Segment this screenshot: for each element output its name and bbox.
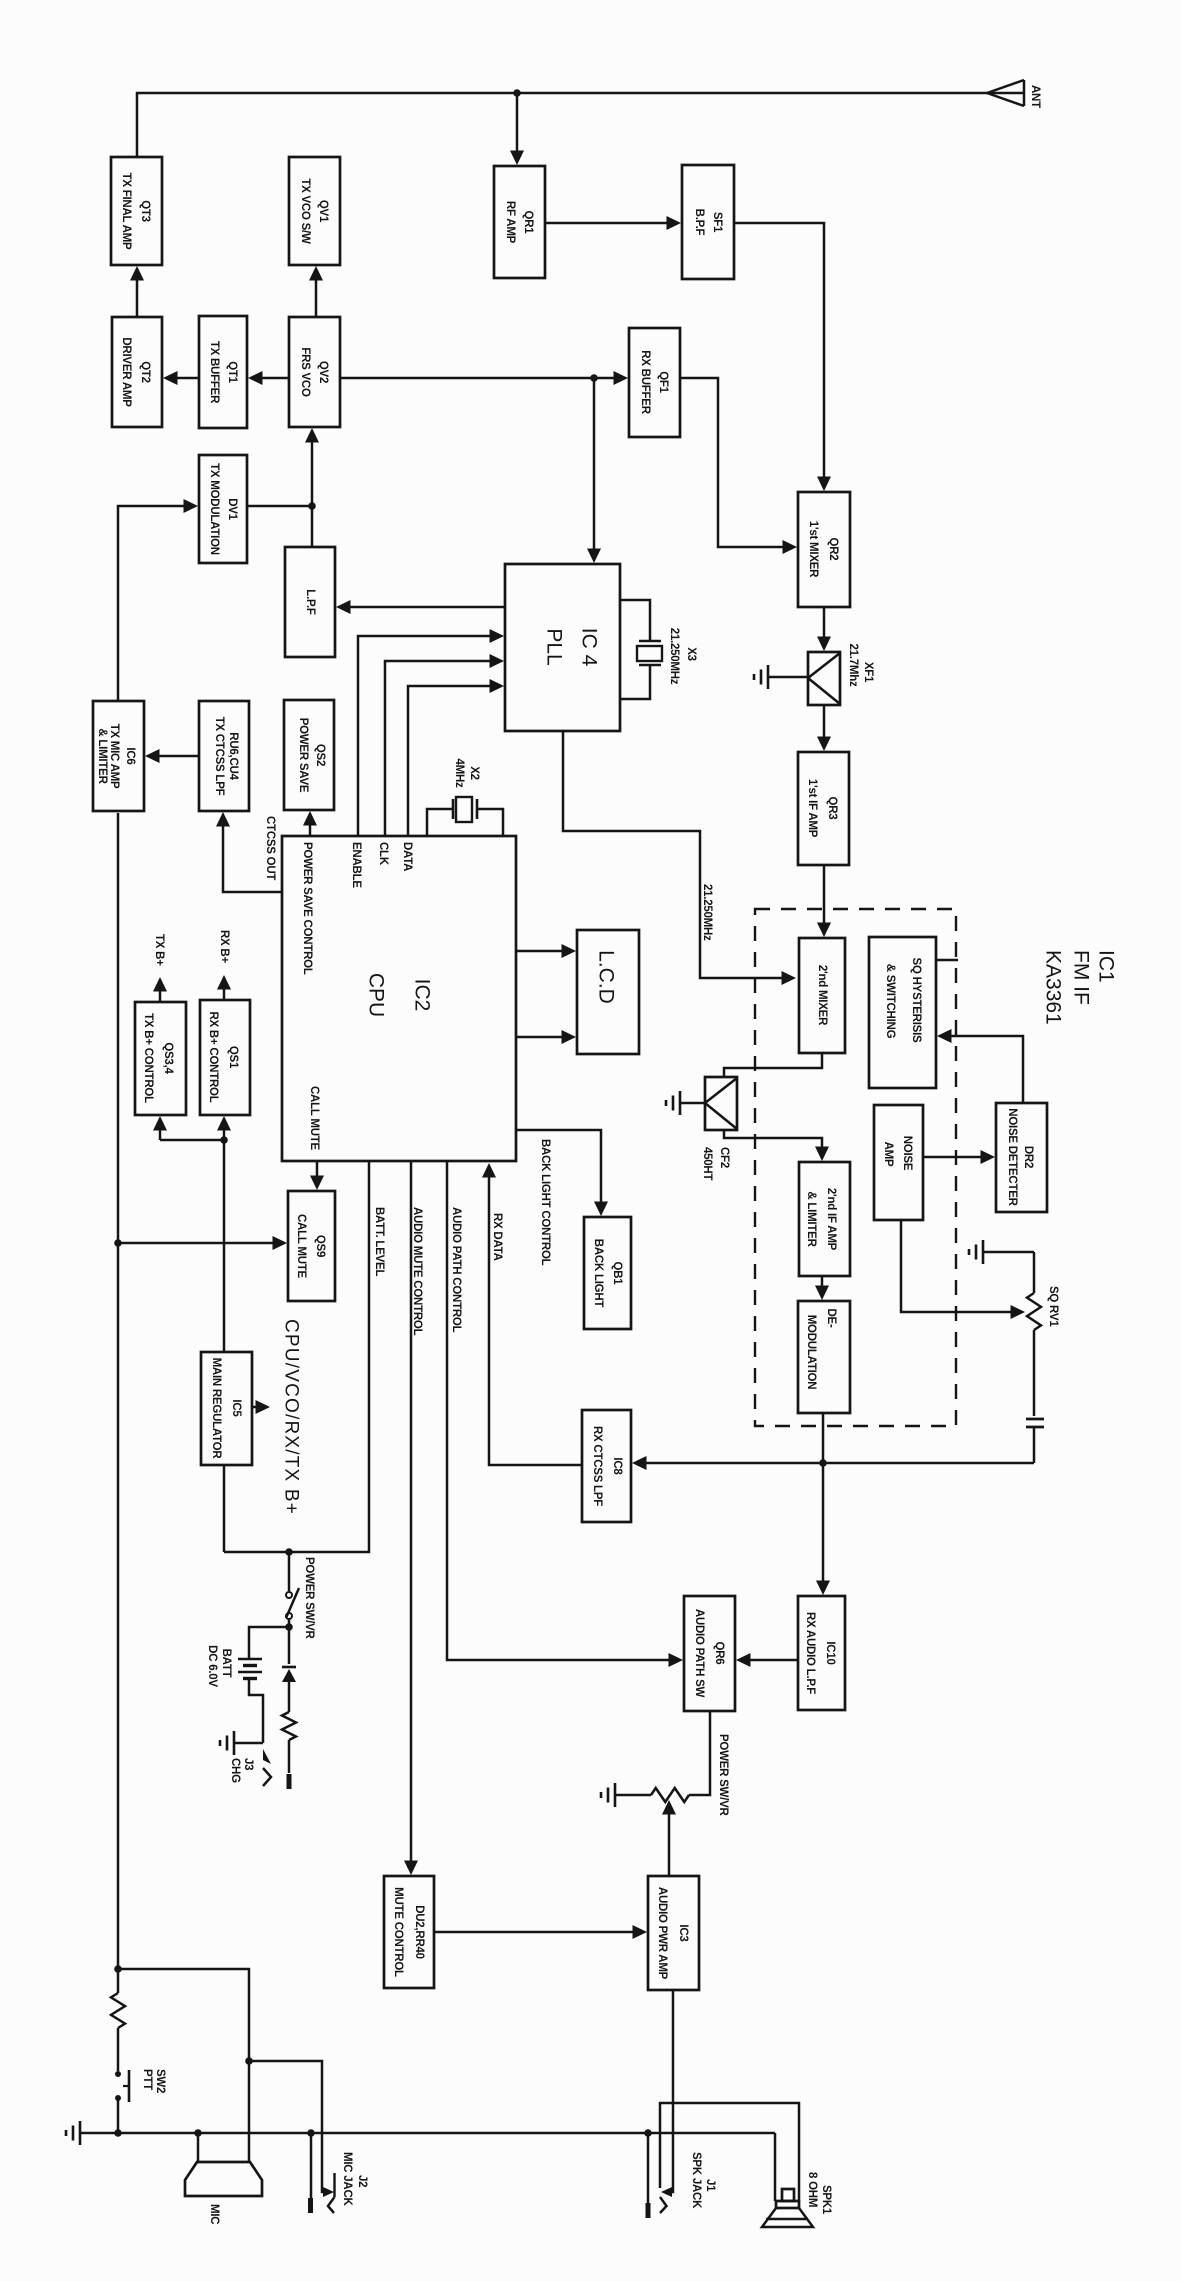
wire NOISE AMP to SQ RV1 wiper: [901, 1220, 1025, 1319]
potentiometer SQ RV1: [1027, 1252, 1041, 1416]
wire QR2 to XF1: [817, 607, 831, 651]
svg-text:IC 4: IC 4: [578, 628, 601, 667]
block SF1 B.P.F: [682, 165, 734, 279]
wire J1 tip lead: [647, 2133, 650, 2203]
junction demodulation output node: [819, 1459, 827, 1467]
wire PTT to ground rail: [117, 2098, 120, 2133]
svg-text:RX B+: RX B+: [218, 930, 230, 963]
switch POWER SW/VR: [286, 1588, 299, 1619]
wire NOISE AMP to DR2: [923, 1150, 995, 1164]
block QB1 BACK LIGHT: [584, 1217, 631, 1329]
svg-text:ANT: ANT: [1029, 85, 1041, 108]
svg-text:QS3,4: QS3,4: [162, 1042, 174, 1074]
svg-text:SF1: SF1: [711, 212, 723, 233]
svg-text:QT1: QT1: [226, 361, 238, 383]
label X2 4MHz: [453, 758, 480, 788]
svg-text:QV2: QV2: [317, 361, 329, 383]
svg-text:RX B+ CONTROL: RX B+ CONTROL: [207, 1012, 219, 1103]
svg-text:DU2,RR40: DU2,RR40: [413, 1905, 425, 1959]
junction PTT on rail: [114, 2129, 122, 2137]
pin label DATA: [401, 842, 413, 871]
junction DV1 node: [308, 502, 316, 510]
block IC2 CPU: [282, 836, 516, 1161]
svg-text:IC5: IC5: [230, 1399, 242, 1417]
wire DU2 to IC3: [434, 1925, 647, 1939]
wire AUDIO MUTE CONTROL: [404, 1161, 418, 1875]
svg-text:TX B+ CONTROL: TX B+ CONTROL: [142, 1013, 154, 1103]
wire IC5 bottom: [223, 1465, 226, 1552]
svg-text:NOISE: NOISE: [901, 1136, 913, 1171]
junction mic/jack node: [245, 2057, 253, 2065]
svg-text:MIC: MIC: [208, 2204, 220, 2224]
arrow TX B+: [153, 977, 167, 1002]
antenna ANT: [987, 80, 1024, 106]
wire volume wiper to IC3: [662, 1800, 676, 1876]
junction J1 tip: [644, 2129, 652, 2137]
wire IC3 output: [672, 1990, 673, 2192]
pin label CLK: [377, 842, 389, 866]
svg-text:CTCSS OUT: CTCSS OUT: [264, 816, 276, 880]
svg-text:PTT: PTT: [141, 2069, 153, 2090]
svg-text:1'st MIXER: 1'st MIXER: [807, 521, 819, 578]
label BATT. LEVEL: [373, 1207, 385, 1276]
dashed boundary IC1 KA3361: [755, 909, 956, 1426]
label J1 SPK JACK: [690, 2152, 716, 2209]
svg-text:POWER SW/VR: POWER SW/VR: [717, 1734, 729, 1817]
svg-text:BACK LIGHT: BACK LIGHT: [592, 1239, 604, 1308]
svg-text:IC6: IC6: [124, 747, 136, 764]
block DR2 NOISE DETECTER: [996, 1103, 1047, 1212]
svg-text:IC10: IC10: [824, 1641, 836, 1664]
label CF2 450HT: [701, 1147, 730, 1180]
block L.P.F: [285, 547, 335, 657]
svg-text:450HT: 450HT: [701, 1147, 713, 1180]
svg-text:AUDIO PATH SW: AUDIO PATH SW: [693, 1609, 705, 1698]
wire resistor to PTT: [117, 2028, 120, 2071]
wire CPU CALL MUTE to QS9: [310, 1161, 324, 1190]
label 21.250MHz: [701, 884, 713, 941]
svg-text:TX BUFFER: TX BUFFER: [208, 341, 220, 404]
wire DATA to PLL: [408, 679, 504, 836]
block QR3 1'st IF AMP: [798, 752, 849, 865]
svg-text:MUTE CONTROL: MUTE CONTROL: [392, 1887, 404, 1977]
svg-text:L.P.F: L.P.F: [304, 589, 316, 615]
label IC1 FM IF KA3361: [1042, 950, 1118, 1025]
svg-text:SPK1: SPK1: [820, 2185, 832, 2215]
crystal X3 21.250MHz: [620, 600, 662, 699]
svg-text:NOISE DETECTER: NOISE DETECTER: [1006, 1108, 1018, 1206]
svg-text:TX FINAL AMP: TX FINAL AMP: [120, 173, 132, 250]
wire PLL to 2'nd MIXER 21.250MHz: [563, 731, 796, 985]
filter XF1 21.7Mhz: [808, 652, 840, 705]
wire DV1 to QV2/LPF: [247, 428, 319, 547]
jack J1 SPK JACK tip: [646, 2203, 651, 2218]
svg-text:DE-: DE-: [825, 1308, 837, 1327]
label XF1 21.7Mhz: [847, 644, 874, 687]
svg-text:POWER SW/VR: POWER SW/VR: [303, 1557, 315, 1640]
block NOISE AMP: [874, 1105, 923, 1220]
label J2 MIC JACK: [341, 2152, 368, 2207]
wire ENABLE to PLL: [358, 629, 504, 836]
svg-text:POWER SAVE: POWER SAVE: [297, 718, 309, 793]
wire squelch to IC8: [632, 1456, 1034, 1470]
resistor PTT rail: [111, 1993, 125, 2028]
pin label CALL MUTE: [308, 1086, 320, 1151]
wire left rail upper: [117, 813, 120, 1993]
wire speaker ground lead: [774, 2133, 777, 2201]
svg-text:J1: J1: [704, 2179, 716, 2192]
wire PLL to LPF: [336, 600, 505, 614]
svg-text:QB1: QB1: [611, 1262, 623, 1286]
svg-text:MIC JACK: MIC JACK: [341, 2152, 353, 2207]
wire RU6 to IC6: [145, 749, 199, 763]
block QT3 TX FINAL AMP: [111, 157, 162, 265]
svg-text:RU6,CU4: RU6,CU4: [227, 732, 239, 780]
svg-text:XF1: XF1: [862, 662, 874, 683]
wire resistor to J3 tip: [288, 1740, 291, 1773]
wire switch to diode: [288, 1619, 291, 1664]
svg-text:FM IF: FM IF: [1070, 950, 1093, 1005]
label ANT: [1029, 85, 1041, 108]
block IC4 PLL: [505, 564, 620, 731]
jack J2 MIC JACK tip: [308, 2198, 313, 2213]
wire IC8 to CPU RX DATA: [482, 1163, 582, 1465]
wire to power switch: [288, 1552, 291, 1591]
svg-text:SQ HYSTERISIS: SQ HYSTERISIS: [910, 958, 922, 1044]
wire QV2 to QV1: [309, 266, 323, 317]
svg-text:BATT. LEVEL: BATT. LEVEL: [373, 1207, 385, 1276]
wire SF1 to QR2: [734, 223, 831, 491]
pin label CTCSS OUT: [264, 816, 276, 880]
svg-text:QR1: QR1: [522, 211, 534, 235]
block QS2 POWER SAVE: [284, 700, 334, 810]
potentiometer volume POWER SW/VR: [651, 1788, 689, 1802]
wire ground rail: [80, 2132, 775, 2135]
wire IC10 to QR6: [736, 1653, 798, 1667]
wire mic right lead: [248, 2061, 251, 2162]
block QT2 DRIVER AMP: [112, 317, 162, 427]
wire CPU to LCD upper: [516, 944, 576, 958]
filter CF2 450HT: [705, 1077, 737, 1130]
svg-text:FRS VCO: FRS VCO: [299, 347, 311, 397]
wire CF2 to 2'nd IF AMP: [724, 1130, 829, 1161]
svg-text:QF1: QF1: [657, 371, 669, 393]
jack J1 SPK JACK contact: [660, 2187, 672, 2213]
svg-text:IC2: IC2: [411, 979, 434, 1012]
block IC8 RX CTCSS LPF: [582, 1410, 631, 1522]
svg-text:4MHz: 4MHz: [453, 758, 465, 788]
ground at XF1: [754, 665, 808, 689]
svg-text:CALL MUTE: CALL MUTE: [295, 1214, 307, 1279]
pushbutton SW2 PTT: [115, 2070, 129, 2102]
svg-text:RX DATA: RX DATA: [491, 1213, 503, 1261]
svg-text:CHG: CHG: [229, 1758, 241, 1783]
wire to IC5 top: [223, 1140, 226, 1352]
wire SQ HYSTERISIS stub: [936, 959, 958, 962]
wire J2 branch: [249, 2061, 327, 2192]
wire DE-MODULATION to IC10: [816, 1413, 830, 1595]
svg-text:TX VCO S/W: TX VCO S/W: [299, 178, 311, 244]
speaker SPK1 8 OHM: [762, 2189, 813, 2227]
label POWER SW/VR upper: [303, 1557, 315, 1640]
block QF1 RX BUFFER: [629, 328, 680, 437]
svg-text:QS2: QS2: [314, 744, 326, 766]
junction mic line at QS9: [114, 1239, 122, 1247]
block QR1 RF AMP: [494, 166, 545, 278]
label BACK LIGHT CONTROL: [539, 1139, 551, 1266]
svg-text:BATT: BATT: [220, 1649, 232, 1678]
svg-text:& LIMITER: & LIMITER: [96, 728, 108, 784]
svg-text:DC 6.0V: DC 6.0V: [206, 1645, 218, 1687]
wire QR6 to volume pot: [689, 1711, 710, 1795]
block QS9 CALL MUTE: [288, 1191, 335, 1301]
wire QF1 to QR2: [680, 378, 797, 554]
block QS1 RX B+ CONTROL: [200, 1000, 250, 1115]
wire mic branch: [118, 1969, 249, 2061]
svg-text:21.7Mhz: 21.7Mhz: [847, 644, 859, 687]
block L.C.D: [577, 930, 639, 1054]
junction QV2 line to PLL: [590, 374, 598, 382]
junction power switch branch: [285, 1548, 293, 1556]
ground main rail: [66, 2121, 80, 2145]
jack J3 CHG contact: [263, 1749, 271, 1786]
svg-text:CLK: CLK: [377, 842, 389, 866]
svg-text:POWER SAVE CONTROL: POWER SAVE CONTROL: [301, 842, 313, 975]
diode charge: [282, 1667, 296, 1712]
svg-text:CALL MUTE: CALL MUTE: [308, 1086, 320, 1151]
svg-text:2'nd MIXER: 2'nd MIXER: [816, 965, 828, 1026]
svg-text:2'nd IF AMP: 2'nd IF AMP: [825, 1188, 837, 1251]
label SPK1 8 OHM: [806, 2172, 832, 2215]
svg-text:DRIVER AMP: DRIVER AMP: [120, 337, 132, 407]
jack J2 MIC JACK contact: [323, 2173, 335, 2213]
junction J2 sleeve: [307, 2129, 315, 2137]
wire BATT LEVEL: [224, 1161, 369, 1552]
svg-text:21.250MHz: 21.250MHz: [701, 884, 713, 941]
svg-text:AUDIO MUTE CONTROL: AUDIO MUTE CONTROL: [411, 1207, 423, 1336]
junction mic branch: [114, 1965, 122, 1973]
ground at SQ RV1: [969, 1240, 1034, 1264]
block IC5 MAIN REGULATOR: [201, 1352, 252, 1465]
resistor charge: [282, 1712, 296, 1740]
svg-text:8 OHM: 8 OHM: [806, 2172, 818, 2207]
wire 2'nd MIXER to CF2: [724, 1053, 822, 1077]
svg-text:IC1: IC1: [1095, 950, 1118, 983]
capacitor below SQ RV1: [1026, 1419, 1044, 1463]
wire speaker loop: [660, 2103, 799, 2201]
wire QS3/QS1 control: [153, 1116, 231, 1140]
label POWER SW/VR lower: [717, 1734, 729, 1817]
wire DR2 to SQ HYSTERISIS: [937, 1029, 1023, 1103]
wire CLK to PLL: [385, 654, 504, 836]
svg-text:J3: J3: [242, 1758, 254, 1770]
junction battery branch: [285, 1623, 293, 1631]
svg-text:1'st IF AMP: 1'st IF AMP: [806, 779, 818, 838]
block QR6 AUDIO PATH SW: [684, 1596, 735, 1711]
label RX DATA: [491, 1213, 503, 1261]
svg-text:QS1: QS1: [227, 1046, 239, 1069]
svg-text:AUDIO PATH CONTROL: AUDIO PATH CONTROL: [450, 1207, 462, 1333]
svg-text:PLL: PLL: [543, 628, 566, 665]
block IC6 TX MIC AMP & LIMITER: [93, 701, 144, 811]
label SW2 PTT: [141, 2069, 166, 2093]
label AUDIO PATH CONTROL: [450, 1207, 462, 1333]
svg-text:X3: X3: [685, 647, 697, 661]
svg-text:TX CTCSS LPF: TX CTCSS LPF: [213, 717, 225, 796]
pin label ENABLE: [350, 842, 362, 888]
wire QT1 to QT2: [163, 371, 199, 385]
block QS3,4 TX B+ CONTROL: [135, 1002, 186, 1115]
label AUDIO MUTE CONTROL: [411, 1207, 423, 1336]
svg-text:QR3: QR3: [826, 797, 838, 820]
pin label POWER SAVE CONTROL: [301, 842, 313, 975]
svg-text:DATA: DATA: [401, 842, 413, 871]
microphone MIC: [185, 2162, 262, 2196]
svg-text:QR6: QR6: [713, 1642, 725, 1665]
jack J3 CHG tip: [287, 1774, 292, 1789]
svg-text:QT3: QT3: [139, 200, 151, 222]
svg-text:RX AUDIO L.P.F: RX AUDIO L.P.F: [804, 1612, 816, 1694]
label RX B+: [218, 930, 230, 963]
svg-text:& SWITCHING: & SWITCHING: [884, 964, 896, 1039]
wire POWER SAVE CONTROL: [303, 811, 317, 836]
block IC3 AUDIO PWR AMP: [648, 1876, 699, 1990]
wire into QR1: [510, 93, 524, 165]
svg-text:CF2: CF2: [718, 1147, 730, 1168]
block QV1 TX VCO S/W: [289, 157, 340, 265]
svg-text:L.C.D: L.C.D: [595, 950, 618, 1004]
block SQ HYSTERISIS & SWITCHING: [869, 937, 936, 1088]
svg-text:SW2: SW2: [154, 2069, 166, 2093]
svg-text:MAIN REGULATOR: MAIN REGULATOR: [210, 1358, 222, 1460]
wire into PLL top: [587, 378, 601, 563]
crystal X2 4MHz: [427, 797, 503, 836]
wire CPU to LCD lower: [516, 1030, 576, 1044]
svg-text:RF AMP: RF AMP: [504, 201, 516, 244]
svg-text:BACK LIGHT CONTROL: BACK LIGHT CONTROL: [539, 1139, 551, 1266]
wire 2'nd IF AMP to DE-MODULATION: [815, 1276, 829, 1300]
label MIC: [208, 2204, 220, 2224]
svg-text:RX CTCSS LPF: RX CTCSS LPF: [591, 1426, 603, 1506]
block DV1 TX MODULATION: [199, 455, 247, 563]
battery BATT DC 6.0V: [238, 1627, 289, 1743]
junction control to IC5: [220, 1136, 228, 1144]
svg-text:IC8: IC8: [611, 1457, 623, 1475]
wire QT2 to QT3: [130, 266, 144, 317]
block 2'nd IF AMP & LIMITER: [799, 1162, 850, 1276]
wire J2 sleeve: [310, 2133, 313, 2198]
block DU2,RR40 MUTE CONTROL: [384, 1876, 434, 1988]
svg-text:DR2: DR2: [1022, 1146, 1034, 1168]
wire CTCSS OUT: [216, 812, 282, 892]
block 2'nd MIXER: [799, 938, 845, 1053]
svg-text:& LIMITER: & LIMITER: [805, 1191, 817, 1247]
block IC10 RX AUDIO L.P.F: [798, 1596, 845, 1710]
junction antenna line to QR1: [513, 89, 521, 97]
svg-text:RX BUFFER: RX BUFFER: [639, 350, 651, 415]
wire AUDIO PATH CONTROL: [447, 1161, 683, 1667]
svg-text:21.250MHz: 21.250MHz: [668, 628, 680, 685]
label BATT DC 6.0V: [206, 1645, 232, 1687]
svg-text:QR2: QR2: [827, 538, 839, 561]
label X3 21.250MHz: [668, 628, 697, 685]
label L.C.D: [595, 950, 618, 1004]
block QV2 FRS VCO: [289, 317, 340, 427]
svg-text:TX MODULATION: TX MODULATION: [208, 463, 220, 555]
wire QR3 to 2'nd MIXER: [817, 865, 831, 937]
label CPU/VCO/RX/TX B+: [281, 1319, 302, 1515]
block DE-MODULATION: [798, 1301, 850, 1413]
junction mic left lead: [194, 2129, 202, 2137]
svg-text:ENABLE: ENABLE: [350, 842, 362, 888]
wire mic line to QS9: [118, 1236, 287, 1250]
block RU6,CU4 TX CTCSS LPF: [199, 701, 249, 811]
wire mic left lead: [197, 2133, 200, 2162]
arrow IC5 output: [252, 1400, 270, 1414]
block QT1 TX BUFFER: [199, 316, 247, 428]
wire XF1 to QR3: [817, 705, 831, 751]
wire QR1 to SF1: [545, 216, 681, 230]
svg-text:AUDIO PWR AMP: AUDIO PWR AMP: [656, 1887, 668, 1980]
wire QV2 output: [340, 371, 628, 385]
svg-text:B.P.F: B.P.F: [693, 209, 705, 236]
svg-text:AMP: AMP: [882, 1142, 894, 1167]
wire QV2 to QT1: [248, 371, 289, 385]
svg-text:IC3: IC3: [677, 1924, 689, 1941]
ground at battery: [220, 1731, 263, 1755]
svg-text:QV1: QV1: [317, 200, 329, 223]
label SQ RV1: [1047, 1286, 1059, 1327]
ground at CF2: [666, 1091, 705, 1115]
ground at volume pot: [601, 1783, 651, 1807]
svg-text:SQ RV1: SQ RV1: [1047, 1286, 1059, 1327]
wire antenna feed from QT3: [137, 93, 987, 157]
svg-text:QS9: QS9: [314, 1235, 326, 1257]
wire BACK LIGHT CONTROL: [516, 1130, 608, 1216]
svg-text:QT2: QT2: [139, 361, 151, 383]
arrow RX B+: [217, 975, 231, 1000]
svg-text:CPU/VCO/RX/TX B+: CPU/VCO/RX/TX B+: [281, 1319, 302, 1515]
block QR2 1'st MIXER: [798, 492, 850, 607]
svg-text:J2: J2: [356, 2175, 368, 2187]
svg-text:CPU: CPU: [365, 973, 388, 1017]
svg-text:DV1: DV1: [226, 498, 238, 520]
svg-text:SPK JACK: SPK JACK: [690, 2152, 702, 2209]
svg-text:TX MIC AMP: TX MIC AMP: [108, 724, 120, 789]
svg-text:TX B+: TX B+: [153, 934, 165, 966]
svg-text:KA3361: KA3361: [1042, 950, 1065, 1025]
label TX B+: [153, 934, 165, 966]
svg-text:X2: X2: [468, 766, 480, 780]
wire IC6 to DV1: [118, 499, 198, 701]
label J3 CHG: [229, 1758, 254, 1783]
svg-text:MODULATION: MODULATION: [805, 1315, 817, 1390]
